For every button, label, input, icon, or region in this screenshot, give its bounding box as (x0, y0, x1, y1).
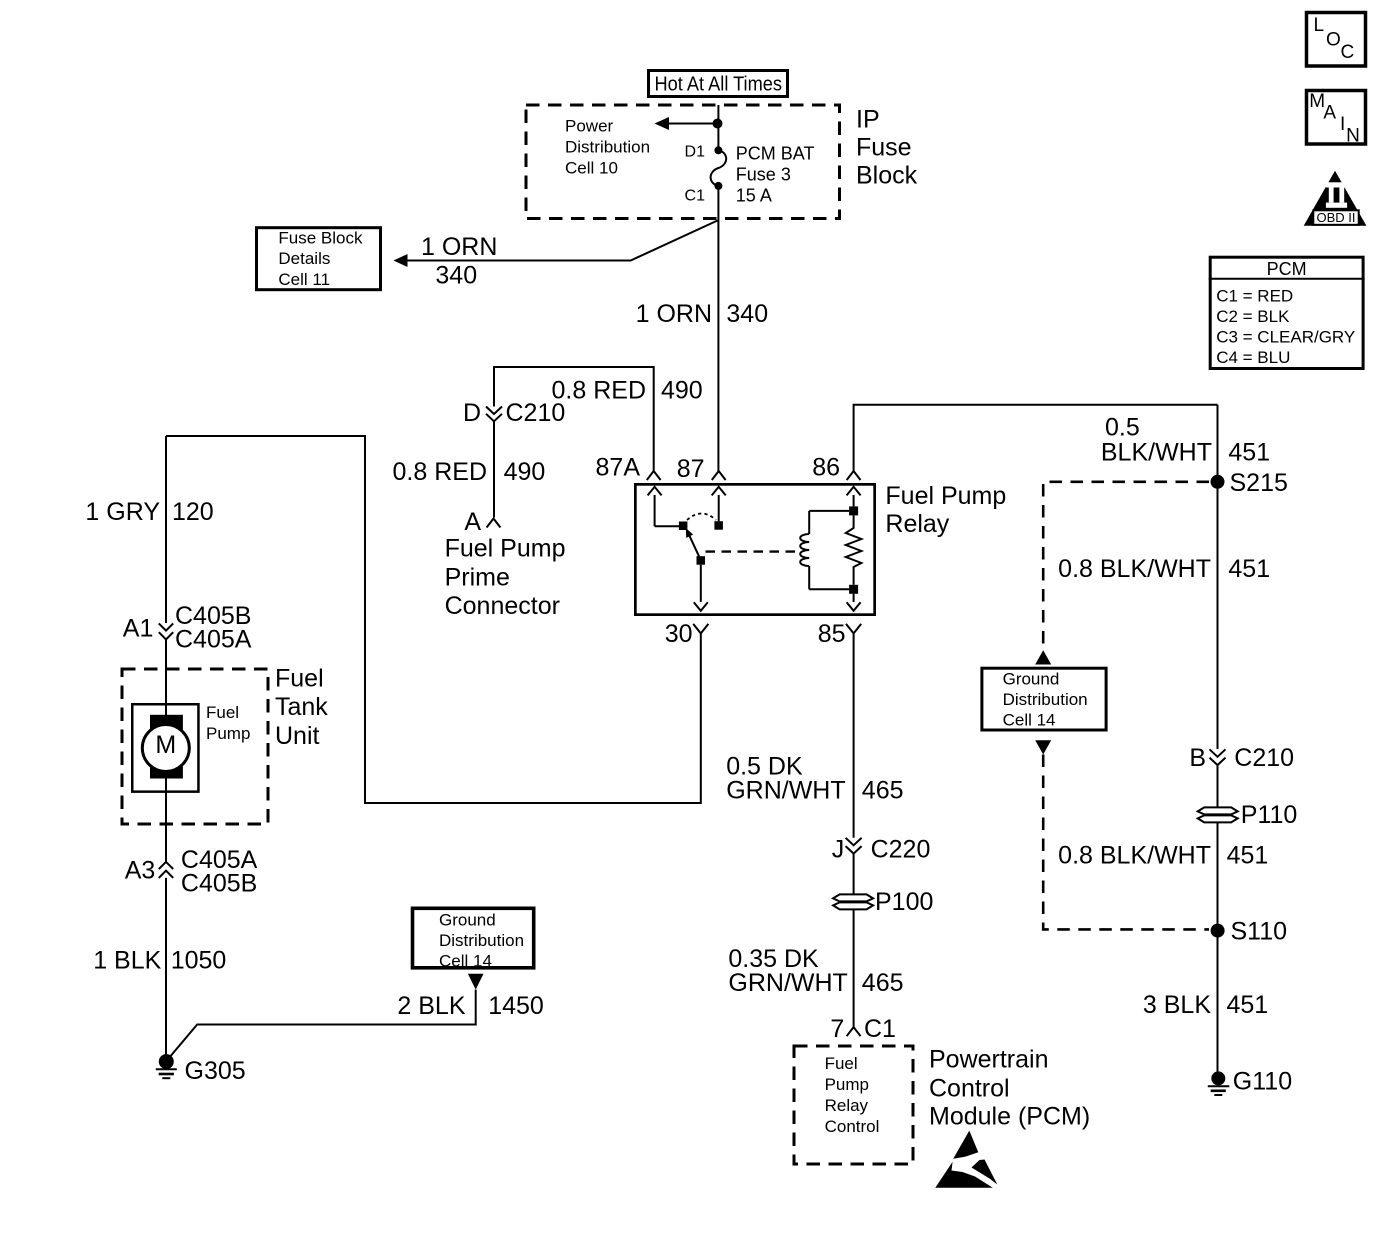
svg-text:I: I (1340, 114, 1345, 135)
wire C210 to prime connector terminal A (493, 421, 495, 517)
svg-text:Fuel: Fuel (206, 703, 239, 722)
svg-text:1450: 1450 (488, 992, 544, 1020)
svg-text:C220: C220 (871, 836, 931, 864)
PCM dashed box (Fuel Pump Relay Control) (794, 1046, 913, 1164)
label 0.5 DK GRN/WHT 465 (726, 752, 903, 804)
svg-text:C2 = BLK: C2 = BLK (1216, 307, 1290, 326)
label Power Distribution Cell 10 (565, 117, 650, 178)
Fuel Tank Unit dashed box (122, 669, 268, 824)
connector B C210 (1189, 744, 1294, 772)
svg-text:IP: IP (856, 106, 880, 134)
svg-text:Fuse Block: Fuse Block (278, 229, 363, 248)
svg-text:C405A: C405A (175, 626, 252, 654)
dashed wire Ground Distribution to S110 (1043, 755, 1209, 930)
relay internal: 87 stem node (714, 521, 723, 530)
svg-text:451: 451 (1227, 991, 1269, 1019)
svg-text:PCM: PCM (1267, 259, 1307, 279)
wire arrow to Power Distribution (667, 123, 718, 125)
svg-text:3 BLK: 3 BLK (1143, 991, 1211, 1019)
label 0.35 DK GRN/WHT 465 (728, 945, 903, 997)
svg-text:Ground: Ground (1003, 670, 1060, 689)
svg-text:M: M (155, 731, 176, 759)
relay internal: dashed actuation link (706, 550, 796, 552)
connector D C210 (463, 399, 565, 427)
svg-text:86: 86 (812, 454, 840, 482)
svg-text:Tank: Tank (275, 693, 328, 721)
svg-text:30: 30 (665, 620, 693, 648)
connector J C220 (832, 836, 931, 864)
arrow out of ground distribution (down triangle) (1035, 740, 1051, 754)
label Powertrain Control Module (PCM) (929, 1046, 1090, 1131)
svg-text:Connector: Connector (445, 592, 560, 620)
svg-text:Distribution: Distribution (1003, 690, 1088, 709)
svg-text:Cell 14: Cell 14 (439, 952, 492, 971)
svg-text:C1: C1 (864, 1015, 896, 1043)
svg-text:A: A (1323, 103, 1336, 124)
node junction at fuse feed (713, 119, 723, 129)
svg-text:C4 = BLU: C4 = BLU (1216, 348, 1290, 367)
svg-text:G305: G305 (185, 1057, 246, 1085)
svg-text:Module (PCM): Module (PCM) (929, 1103, 1090, 1131)
svg-text:Powertrain: Powertrain (929, 1046, 1049, 1074)
relay internal: coil top node (849, 506, 858, 515)
svg-text:Block: Block (856, 162, 918, 190)
svg-text:1 ORN: 1 ORN (421, 233, 497, 261)
relay internal: coil branch (800, 511, 849, 589)
pin 7 C1 of PCM (830, 1015, 896, 1043)
label Fuel Tank Unit (275, 665, 328, 751)
wire connector A3 down to ground G305 (165, 878, 167, 1055)
svg-text:C3 = CLEAR/GRY: C3 = CLEAR/GRY (1216, 328, 1355, 347)
svg-text:Control: Control (929, 1075, 1010, 1103)
svg-text:N: N (1346, 126, 1360, 147)
svg-text:Pump: Pump (206, 724, 250, 743)
wire pin 85 down to connector J (853, 633, 855, 837)
svg-text:C405B: C405B (181, 870, 257, 898)
grommet P100 (833, 888, 933, 916)
relay internal: 87A contact arrow (648, 487, 679, 527)
IP Fuse Block dashed box (526, 105, 840, 219)
svg-text:15 A: 15 A (736, 186, 772, 206)
svg-text:340: 340 (435, 261, 477, 289)
wire grommet P100 down to PCM pin 7 (853, 909, 855, 1027)
svg-text:C: C (1341, 42, 1355, 63)
svg-text:1 BLK: 1 BLK (93, 947, 161, 975)
Ground Distribution Cell 14 box (left) (413, 908, 534, 970)
pin 87A (596, 454, 661, 482)
connector A1 C405B/C405A (123, 602, 252, 654)
relay internal: pin 86 arrow up (847, 487, 861, 507)
OBD II symbol (1304, 171, 1367, 226)
svg-text:GRN/WHT: GRN/WHT (726, 776, 845, 804)
wire B+ feed into fuse block (717, 105, 719, 150)
wire fuse output down to relay pin 87 (717, 186, 719, 471)
svg-text:465: 465 (862, 776, 904, 804)
relay internal: dashed arc between contacts (687, 514, 716, 521)
pin 85 (818, 620, 862, 648)
svg-text:OBD II: OBD II (1316, 210, 1355, 225)
wire connector J to grommet P100 (853, 854, 855, 894)
svg-text:1 ORN: 1 ORN (636, 300, 712, 328)
svg-text:BLK/WHT: BLK/WHT (1101, 438, 1212, 466)
label Fuel Pump Relay (885, 482, 1006, 538)
wire pin 30 down, across, up-left to fuel pump feed (166, 436, 701, 803)
MAIN legend box (1307, 91, 1366, 147)
ESD sensitive symbol (935, 1131, 997, 1188)
svg-text:451: 451 (1227, 842, 1269, 870)
label Fuel Pump Prime Connector (445, 535, 566, 621)
label 3 BLK 451 (1143, 991, 1268, 1019)
relay internal: switch pivot node (679, 522, 688, 531)
connector A3 C405A/C405B (125, 846, 258, 898)
Hot At All Times box (649, 71, 788, 97)
node S215 (1211, 469, 1288, 497)
relay internal: switch blade with arrowhead (686, 528, 701, 560)
svg-text:340: 340 (726, 300, 768, 328)
wire branch to Fuse Block Details (406, 221, 718, 261)
svg-text:Cell 11: Cell 11 (278, 270, 330, 289)
wire motor to connector A3 (165, 778, 167, 862)
Ground Distribution Cell 14 box (right) (982, 668, 1106, 730)
svg-text:D: D (463, 399, 481, 427)
pin 87 (677, 455, 726, 483)
wire 0.8 RED branch: 87A up, left, down to prime connector (494, 367, 654, 471)
terminal A of Fuel Pump Prime Connector (464, 508, 500, 536)
svg-text:J: J (832, 836, 845, 864)
label IP Fuse Block (856, 106, 918, 190)
relay internal: resistor (846, 515, 862, 584)
wire fuel pump feed down to connector A1 (165, 436, 167, 623)
svg-text:87: 87 (677, 455, 705, 483)
svg-text:Fuse: Fuse (856, 134, 912, 162)
svg-text:P110: P110 (1241, 801, 1298, 829)
svg-text:D1: D1 (685, 144, 706, 161)
wire grommet to S110 to G110 (1217, 822, 1219, 1071)
svg-text:451: 451 (1228, 438, 1270, 466)
svg-text:Fuel: Fuel (825, 1054, 858, 1073)
relay internal: pin 85 arrow down (847, 594, 861, 611)
fuse PCM BAT Fuse 3 15A (685, 144, 815, 206)
svg-text:Ground: Ground (439, 911, 496, 930)
svg-text:0.8 BLK/WHT: 0.8 BLK/WHT (1058, 555, 1211, 583)
svg-text:Control: Control (825, 1117, 880, 1136)
dashed wire S215 to Ground Distribution (1043, 482, 1209, 650)
svg-text:1050: 1050 (171, 947, 227, 975)
svg-text:GRN/WHT: GRN/WHT (728, 969, 847, 997)
svg-text:G110: G110 (1233, 1067, 1292, 1095)
wire pin 86 up and across to right column (854, 405, 1218, 471)
svg-text:Fuse 3: Fuse 3 (736, 165, 791, 185)
svg-text:L: L (1314, 15, 1325, 36)
svg-text:Power: Power (565, 117, 614, 136)
label Fuel Pump (in tank) (206, 703, 250, 743)
svg-text:B: B (1189, 744, 1206, 772)
svg-text:C1: C1 (685, 188, 706, 205)
wire 2 BLK from ground distribution to G305 (167, 990, 476, 1061)
pin 86 (812, 454, 860, 482)
grommet P110 (1198, 801, 1298, 829)
svg-text:0.5: 0.5 (1105, 413, 1140, 441)
svg-text:P100: P100 (875, 888, 933, 916)
svg-text:Cell 10: Cell 10 (565, 159, 618, 178)
arrow into ground distribution (up triangle) (1035, 650, 1051, 664)
pin 30 (665, 620, 709, 648)
svg-text:Unit: Unit (275, 722, 320, 750)
svg-text:Details: Details (278, 249, 330, 268)
svg-text:C210: C210 (1234, 744, 1294, 772)
svg-text:2 BLK: 2 BLK (397, 992, 465, 1020)
svg-text:0.8 RED: 0.8 RED (393, 458, 487, 486)
relay internal: pin 30 arrow down (694, 565, 708, 611)
PCM connector legend table (1209, 257, 1365, 368)
svg-text:451: 451 (1228, 555, 1270, 583)
svg-text:A1: A1 (123, 615, 154, 643)
label 1 BLK 1050 (93, 947, 226, 975)
svg-text:0.8 BLK/WHT: 0.8 BLK/WHT (1058, 842, 1211, 870)
svg-text:85: 85 (818, 620, 846, 648)
Fuel Pump Relay box (635, 484, 874, 614)
svg-text:7: 7 (830, 1015, 844, 1043)
label 2 BLK 1450 (397, 992, 543, 1020)
node S110 (1211, 918, 1287, 946)
relay internal: coil bottom node (849, 585, 858, 594)
Fuse Block Details Cell 11 box (257, 228, 381, 290)
svg-text:1 GRY: 1 GRY (85, 498, 160, 526)
svg-text:A3: A3 (125, 857, 156, 885)
wire connector B to grommet P110 (1217, 765, 1219, 807)
svg-text:A: A (464, 508, 481, 536)
label 0.8 BLK/WHT 451 (upper right) (1058, 555, 1270, 583)
svg-text:C1 = RED: C1 = RED (1216, 287, 1293, 306)
svg-text:465: 465 (862, 969, 904, 997)
svg-text:Cell 14: Cell 14 (1003, 710, 1056, 729)
LOC legend box (1307, 13, 1366, 67)
svg-text:Distribution: Distribution (439, 931, 524, 950)
relay internal: switch lower node (697, 556, 706, 565)
svg-text:Distribution: Distribution (565, 138, 650, 157)
svg-text:S110: S110 (1231, 918, 1288, 946)
svg-text:490: 490 (504, 458, 546, 486)
svg-text:0.8 RED: 0.8 RED (552, 377, 646, 405)
svg-text:Fuel Pump: Fuel Pump (445, 535, 566, 563)
svg-text:S215: S215 (1230, 469, 1288, 497)
svg-text:C210: C210 (506, 399, 566, 427)
svg-text:490: 490 (661, 377, 703, 405)
label 0.8 BLK/WHT 451 (lower right) (1058, 842, 1268, 870)
arrow out of left ground distribution (down triangle) (468, 974, 484, 990)
svg-text:Fuel Pump: Fuel Pump (885, 482, 1006, 510)
wire connector A1 into fuel tank unit (165, 639, 167, 716)
svg-text:PCM BAT: PCM BAT (736, 144, 815, 164)
label 1 GRY 120 (85, 498, 213, 526)
svg-text:Pump: Pump (825, 1075, 869, 1094)
wire right column down to splice S215 and connector B (1217, 405, 1219, 749)
svg-text:Relay: Relay (885, 510, 949, 538)
fuel pump motor (132, 704, 198, 791)
svg-text:Prime: Prime (445, 564, 510, 592)
label 0.5 BLK/WHT 451 (1101, 413, 1270, 466)
svg-text:Fuel: Fuel (275, 665, 324, 693)
svg-text:O: O (1326, 30, 1341, 51)
svg-text:120: 120 (172, 498, 214, 526)
ground G305 (156, 1054, 246, 1085)
svg-text:87A: 87A (596, 454, 641, 482)
ground G110 (1208, 1067, 1292, 1095)
svg-text:Hot At All Times: Hot At All Times (655, 74, 783, 96)
svg-text:Relay: Relay (825, 1096, 869, 1115)
relay internal: 87 contact arrow (712, 487, 726, 521)
